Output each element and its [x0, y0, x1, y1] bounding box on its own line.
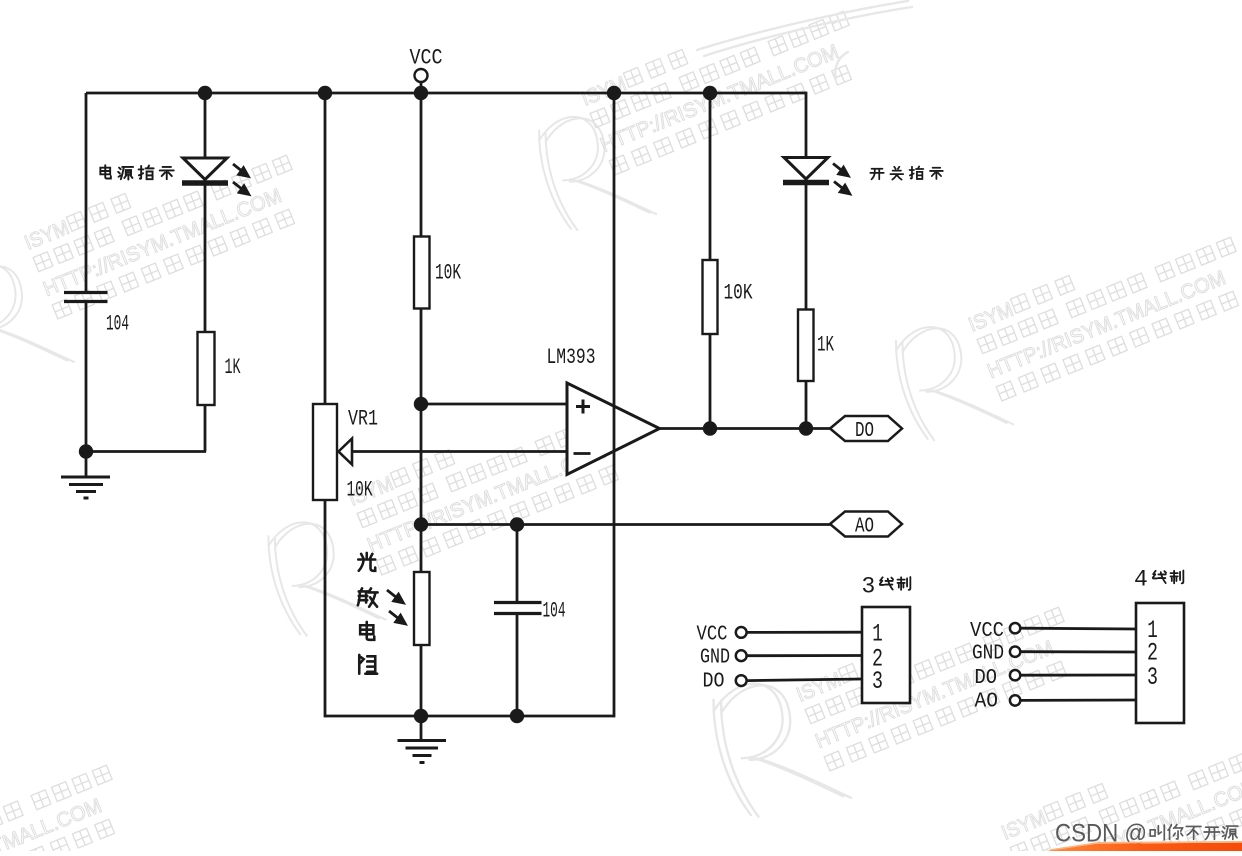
wire R4 to output [805, 381, 808, 429]
resistor R2 1K [198, 332, 215, 405]
wire VCC pin to J2 [1021, 627, 1137, 631]
svg-text:DO: DO [703, 671, 725, 694]
wire AO line [421, 523, 830, 526]
pin VCC (J1) [736, 627, 747, 638]
wire RG to ground rail [420, 645, 423, 716]
wire rail to R3 [709, 93, 712, 260]
op-amp - input marking [574, 452, 591, 455]
svg-text:1K: 1K [225, 355, 241, 380]
wire VR1 to ground rail [324, 500, 327, 717]
junction divider to AO [414, 517, 428, 531]
pin DO (J2) [1010, 670, 1020, 680]
watermark partial R top-right [697, 1, 912, 80]
wire to non-inverting input [421, 403, 567, 406]
svg-text:DO: DO [975, 667, 998, 690]
svg-text:3: 3 [872, 667, 883, 696]
wire rail to VR1 [324, 93, 327, 404]
wire DO pin to J1 [747, 679, 862, 681]
watermark cluster center [251, 386, 651, 653]
pin VCC (J2) [1010, 623, 1020, 633]
connector J2 4线制 box [1136, 603, 1184, 723]
wire D1 to R2 [204, 184, 207, 332]
svg-text:104: 104 [106, 312, 129, 337]
ground GND2 [420, 716, 423, 741]
svg-text:GND: GND [700, 647, 730, 670]
photoresistor RG body [414, 572, 430, 645]
watermark cluster bottom-center [699, 565, 1095, 837]
capacitor C1 104 [64, 291, 108, 294]
svg-text:DO: DO [855, 420, 874, 443]
svg-text:AO: AO [855, 515, 874, 538]
wire bottom-left horizontal [86, 450, 206, 453]
op-amp + input marking [576, 405, 590, 408]
watermark cluster bottom-right [916, 720, 1242, 856]
wire rail to LED D1 [204, 93, 207, 158]
pin GND (J2) [1010, 647, 1020, 657]
junction ground rail / divider [414, 709, 428, 723]
pin DO (J1) [736, 675, 747, 686]
svg-text:VR1: VR1 [348, 407, 378, 432]
junction at left ground [79, 444, 93, 458]
capacitor C2 104 [494, 601, 542, 604]
pin GND (J1) [736, 650, 747, 661]
LED D2 switch indicator [784, 158, 828, 180]
wire GND pin to J2 [1021, 650, 1137, 653]
junction on rail at R3 branch [703, 86, 717, 100]
junction divider to non-inverting input [414, 397, 428, 411]
wire C2 to ground rail [516, 614, 519, 717]
svg-text:10K: 10K [435, 261, 462, 286]
svg-text:10K: 10K [347, 478, 374, 503]
wire VCC pin to J1 [747, 631, 862, 634]
wire R3 to output [709, 334, 712, 429]
wire R1 to divider node [420, 309, 423, 573]
node VCC power symbol [415, 69, 428, 82]
label 光敏电阻 (photoresistor) [358, 553, 375, 571]
svg-text:GND: GND [972, 643, 1004, 666]
svg-text:4: 4 [1134, 567, 1148, 593]
wire AO pin to J2 [1021, 699, 1137, 702]
resistor R4 1K [798, 310, 814, 382]
net flag AO [830, 512, 902, 537]
svg-text:104: 104 [543, 599, 566, 624]
junction on rail at crossing wire [607, 86, 621, 100]
wire D2 to R4 [805, 184, 808, 310]
wire AO to capacitor C2 [516, 525, 519, 603]
photoresistor light arrows [387, 590, 406, 624]
wire wiper to inverting input [352, 450, 567, 453]
svg-text:AO: AO [975, 691, 999, 714]
wire bottom ground rail [325, 715, 614, 718]
svg-text:3: 3 [862, 574, 876, 600]
wire left drop to capacitor C1 [85, 93, 88, 292]
watermark cluster left [0, 130, 328, 395]
junction on rail at VCC/divider branch [414, 86, 428, 100]
connector J1 3线制 box [862, 607, 910, 703]
junction output / R4 [799, 421, 813, 435]
junction output / R3 [703, 421, 717, 435]
watermark cluster right [884, 208, 1242, 458]
junction ground rail / C2 [510, 709, 524, 723]
watermark cluster bottom-left [0, 740, 148, 856]
pin AO (J2) [1010, 695, 1020, 705]
wire crossing vertical through op-amp [613, 93, 616, 717]
wire DO pin to J2 [1021, 674, 1137, 677]
junction on rail at LED1 branch [198, 86, 212, 100]
svg-text:3: 3 [1147, 663, 1158, 692]
wire C1 to ground corner [85, 302, 88, 452]
wire rail corner to LED D2 [805, 92, 806, 95]
junction AO / C2 [510, 517, 524, 531]
svg-text:1K: 1K [817, 333, 835, 358]
svg-text:10K: 10K [724, 281, 754, 306]
resistor R3 10K [703, 260, 718, 334]
net flag DO [830, 416, 902, 441]
wire top VCC rail [86, 92, 806, 95]
ground GND1 [85, 452, 88, 478]
wire op-amp output to DO [660, 427, 831, 430]
resistor R1 10K [414, 237, 430, 309]
label 开关指示 (switch indicator) [870, 169, 883, 180]
potentiometer VR1 body [313, 404, 337, 500]
wire GND pin to J1 [747, 654, 862, 657]
op-amp U1 LM393 [567, 383, 660, 475]
svg-text:VCC: VCC [970, 620, 1004, 643]
wire VCC to R1 [420, 93, 423, 237]
svg-text:LM393: LM393 [547, 345, 596, 370]
VR1 wiper arrow [339, 439, 353, 465]
junction on rail at VR1 branch [318, 86, 332, 100]
label 电源指示 (power indicator) [100, 165, 111, 178]
wire R2 to bottom-left wire [204, 405, 207, 452]
LED D1 power indicator [183, 158, 227, 180]
svg-text:VCC: VCC [410, 46, 443, 71]
watermark cluster top-center [519, 0, 888, 248]
svg-text:VCC: VCC [697, 624, 728, 647]
